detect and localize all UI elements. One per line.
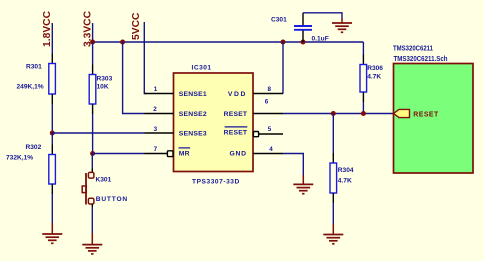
junction rail-sense2 <box>120 40 125 45</box>
pin 4 GND <box>229 146 283 158</box>
wire R304 to ground <box>332 203 334 224</box>
pin 6 RESET <box>224 99 283 118</box>
svg-text:5: 5 <box>268 126 272 133</box>
svg-text:R306: R306 <box>367 65 383 72</box>
svg-text:8: 8 <box>268 86 272 93</box>
wire rail to pin8 VDD <box>282 42 284 94</box>
op-amp U1 : IC301 TPS3307-33D body <box>174 64 254 185</box>
wire 1.8VCC stem <box>51 23 53 54</box>
junction rail-vdd <box>281 40 286 45</box>
resistor R306 <box>360 55 383 103</box>
ground under R302 <box>42 223 62 243</box>
wire R302 to ground <box>51 194 53 223</box>
pushbutton K301 <box>82 172 128 204</box>
junction reset-R306 <box>361 111 366 116</box>
svg-text:TPS3307-33D: TPS3307-33D <box>192 178 240 185</box>
wire cap to ground <box>303 13 342 18</box>
svg-text:5VCC: 5VCC <box>131 12 142 40</box>
power port 5VCC <box>131 12 142 40</box>
resistor R301 <box>17 54 56 105</box>
svg-text:1: 1 <box>154 86 158 93</box>
svg-text:RESET: RESET <box>413 111 439 118</box>
wire 3.3V down to R303 <box>92 42 94 65</box>
wire pin4 GND to ground <box>283 154 303 176</box>
svg-text:SENSE1: SENSE1 <box>179 91 207 98</box>
wire reset net <box>283 113 394 115</box>
svg-text:732K,1%: 732K,1% <box>6 155 33 162</box>
wire R306 to reset net <box>362 102 364 114</box>
wire node A down <box>51 133 53 145</box>
wire 3.3VCC stem <box>92 23 94 42</box>
pin 5 RESET-bar <box>224 126 283 137</box>
wire reset to R304 <box>332 114 334 154</box>
wire R301 to node A <box>51 104 53 133</box>
svg-text:SENSE2: SENSE2 <box>179 111 207 118</box>
ground at pin4 <box>293 175 313 194</box>
svg-text:1.8VCC: 1.8VCC <box>42 10 53 47</box>
svg-text:IC301: IC301 <box>192 64 212 71</box>
svg-text:R301: R301 <box>26 64 42 71</box>
svg-text:4.7K: 4.7K <box>367 73 381 80</box>
svg-text:MR: MR <box>179 151 190 158</box>
junction 3.3VCC <box>90 40 95 45</box>
junction reset-R304 <box>331 111 336 116</box>
wire 3.3V rail <box>93 41 364 43</box>
junction rail-cap <box>301 40 306 45</box>
svg-text:K301: K301 <box>96 176 112 183</box>
svg-text:R302: R302 <box>26 144 42 151</box>
svg-text:VDD: VDD <box>228 91 247 98</box>
ground under button <box>82 233 102 254</box>
svg-text:RESET: RESET <box>224 129 248 136</box>
svg-text:249K,1%: 249K,1% <box>17 84 44 91</box>
wire button to ground <box>91 204 93 207</box>
svg-text:TMS320C6211.Sch: TMS320C6211.Sch <box>394 54 448 63</box>
svg-text:4: 4 <box>269 146 273 153</box>
resistor R302 <box>6 144 55 194</box>
svg-text:R304: R304 <box>338 167 354 174</box>
svg-text:6: 6 <box>265 99 269 106</box>
port RESET <box>394 109 439 118</box>
ground at C301 <box>332 18 352 32</box>
ground under R304 <box>323 224 343 244</box>
svg-text:BUTTON: BUTTON <box>96 196 128 203</box>
pin 8 VDD <box>228 86 283 98</box>
sheet symbol TMS320C6211 <box>393 44 473 173</box>
pin 7 MR <box>145 146 191 158</box>
wire node MR to pin7 <box>93 153 145 155</box>
svg-text:7: 7 <box>154 146 158 153</box>
pin 3 SENSE3 <box>145 126 207 138</box>
node A junction <box>50 131 55 136</box>
capacitor C301 <box>271 13 329 43</box>
wire node A to pin3 <box>52 132 144 134</box>
wire R303 to node MR <box>92 114 94 154</box>
svg-text:SENSE3: SENSE3 <box>179 131 207 138</box>
wire rail to R306 <box>362 42 364 55</box>
wire rail to pin2 <box>123 42 145 114</box>
power port 3.3VCC <box>83 10 94 47</box>
resistor R304 <box>330 153 354 203</box>
svg-text:4.7K: 4.7K <box>338 177 352 184</box>
node MR junction <box>90 151 95 156</box>
svg-text:R303: R303 <box>97 76 113 83</box>
svg-text:RESET: RESET <box>224 111 248 118</box>
svg-text:TMS320C6211: TMS320C6211 <box>393 44 434 53</box>
svg-text:GND: GND <box>229 151 246 158</box>
pin 1 SENSE1 <box>145 86 207 98</box>
wire 5VCC stem to pin1 <box>144 22 146 94</box>
svg-text:3: 3 <box>154 126 158 133</box>
svg-text:0.1uF: 0.1uF <box>312 35 329 42</box>
power port 1.8VCC <box>42 10 53 47</box>
svg-text:C301: C301 <box>271 16 287 23</box>
svg-text:2: 2 <box>153 106 157 113</box>
resistor R303 <box>89 65 112 115</box>
svg-text:10K: 10K <box>97 84 109 91</box>
pin 2 SENSE2 <box>145 106 207 118</box>
wire node MR to button <box>91 154 93 169</box>
